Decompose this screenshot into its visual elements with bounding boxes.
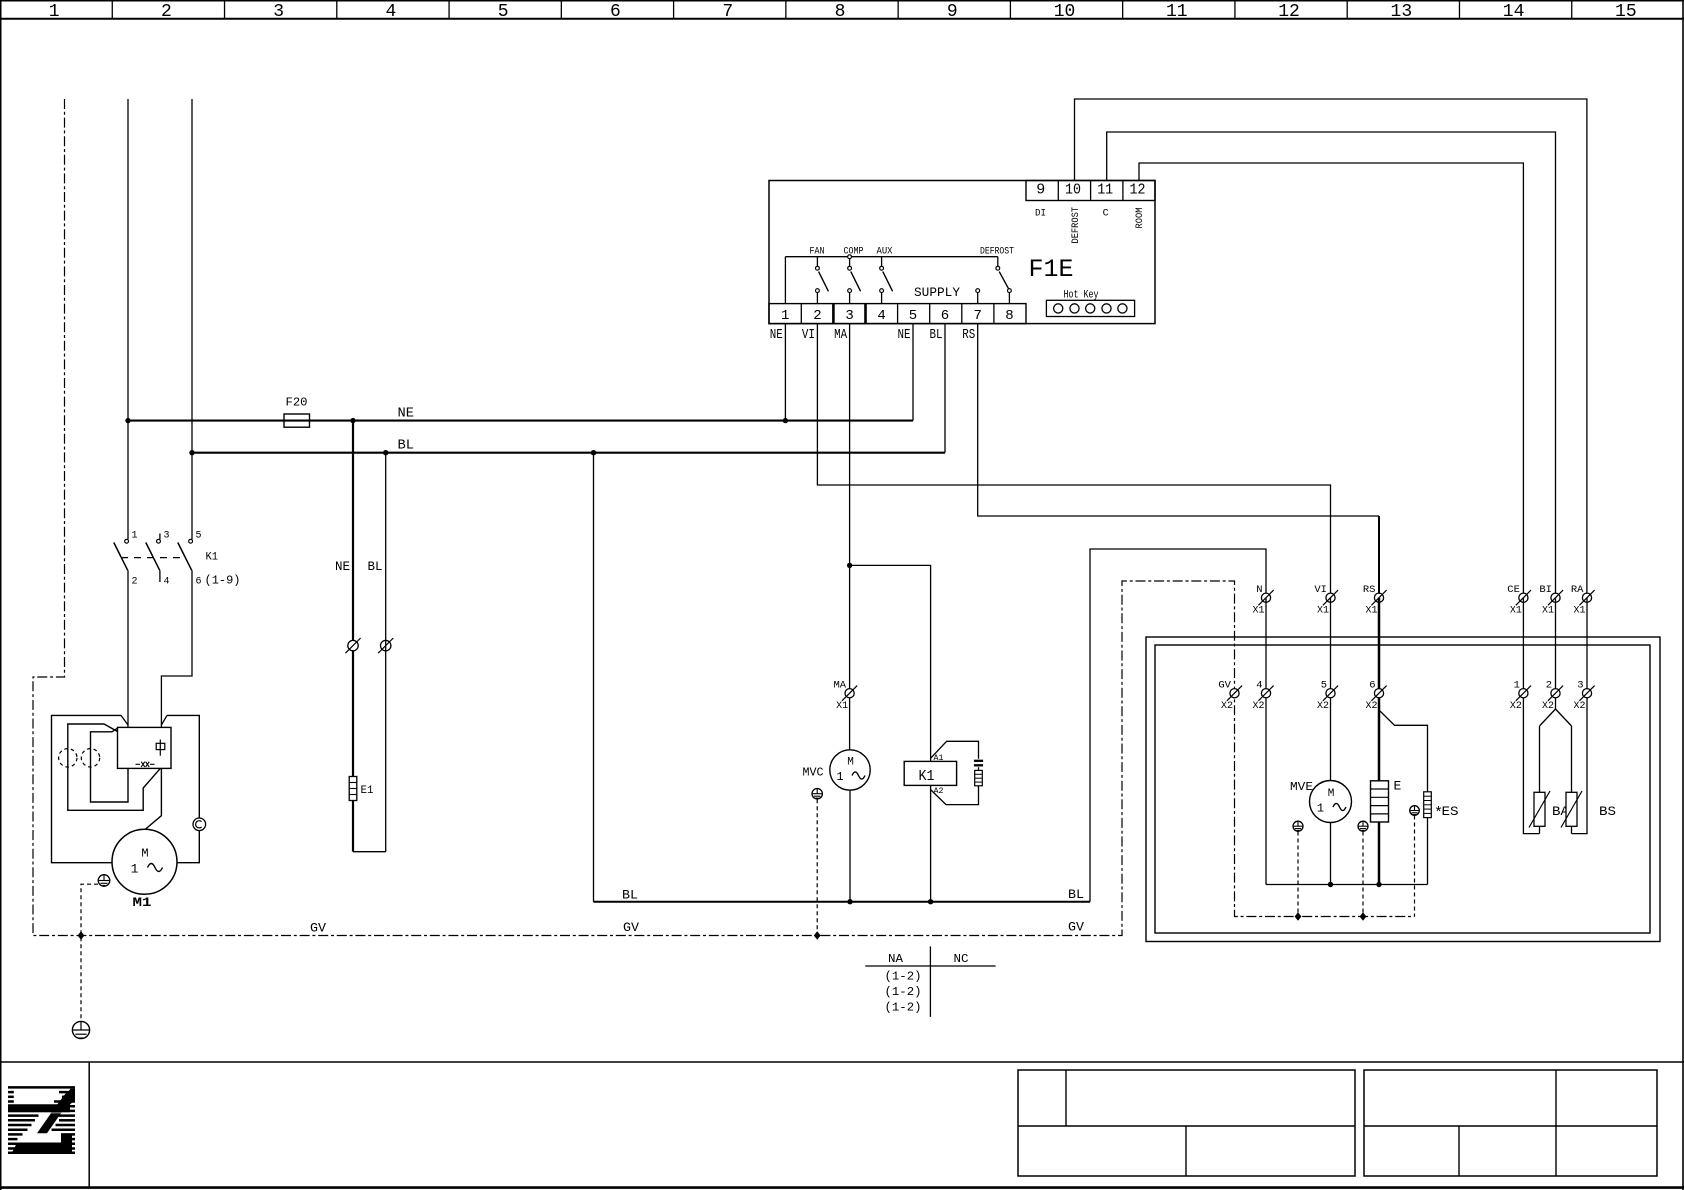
wire MVC to BL return (849, 790, 851, 902)
label F20 (286, 396, 308, 410)
svg-text:ROOM: ROOM (1135, 208, 1146, 229)
svg-text:12: 12 (1278, 2, 1300, 22)
pin label 10 (1065, 182, 1081, 199)
svg-text:COMP: COMP (844, 246, 864, 258)
compressor start relay box (118, 727, 172, 768)
label K1 (contacts) (206, 552, 219, 564)
svg-text:RA: RA (1571, 584, 1584, 596)
svg-text:E: E (1394, 779, 1402, 794)
wire BL bottom bus (594, 901, 1091, 903)
svg-text:10: 10 (1065, 182, 1081, 199)
sensor BA (thermistor) (1529, 791, 1550, 834)
junction NE/E1 branch (350, 418, 355, 423)
svg-text:1: 1 (49, 2, 60, 22)
wire terminal1 NE (784, 324, 786, 421)
svg-text:(1-2): (1-2) (885, 970, 922, 984)
svg-text:9: 9 (1036, 182, 1045, 199)
svg-text:12: 12 (1130, 182, 1146, 199)
svg-text:5: 5 (909, 308, 917, 324)
company logo (striped Z mark) (8, 1087, 75, 1152)
relay contact DEFROST (closed) (996, 257, 1011, 304)
legend table NA/NC (865, 946, 995, 1017)
svg-text:X1: X1 (1542, 606, 1554, 617)
svg-text:BI: BI (1539, 584, 1552, 596)
junction MA/K1 coil branch (847, 563, 852, 568)
wire terminal11 to BI probe (1107, 132, 1556, 598)
svg-text:K1: K1 (206, 552, 219, 564)
starter PTC symbol (136, 762, 155, 767)
wire BI into evaporator (1555, 598, 1557, 709)
wire N into evaporator (1265, 598, 1267, 885)
svg-text:14: 14 (1503, 2, 1525, 22)
wire MA branch to K1 coil (850, 565, 931, 761)
pin label 9 (1036, 182, 1045, 199)
net label NE (bus) (398, 406, 415, 422)
svg-text:2: 2 (1546, 679, 1552, 691)
junction BL/E1 branch (383, 450, 388, 455)
junction GV/M1 ground (78, 931, 85, 939)
wire MVE ground lead (dashed) (1297, 832, 1299, 917)
svg-text:M: M (141, 847, 148, 861)
wire M1 ground lead (dashed) (81, 884, 98, 1021)
svg-text:ES: ES (1442, 805, 1459, 819)
wire NE bus (128, 420, 913, 422)
label Hot Key (1064, 290, 1099, 302)
wire terminal2 VI to evaporator fan (817, 324, 1330, 598)
pin label 1 (781, 308, 789, 324)
net label BL (E1 branch) (368, 559, 383, 574)
connector 1/X2 (1510, 679, 1531, 712)
label ROOM (rotated) (1135, 208, 1146, 229)
F1E internal relay common bus (785, 257, 997, 304)
winding phantom circle B (81, 749, 99, 767)
svg-text:4: 4 (1256, 679, 1262, 691)
junction BL/K1 coil (928, 899, 933, 904)
label BS (1599, 804, 1616, 819)
pin label 5 (909, 308, 917, 324)
label *ES (1434, 805, 1459, 822)
svg-text:(1-2): (1-2) (885, 1000, 922, 1014)
net label GV (right) (1068, 920, 1084, 935)
label DEFROST (rotated) (1071, 207, 1082, 244)
contactor K1 pole 5-6 (178, 539, 193, 570)
wire ES ground lead (dashed) (1414, 816, 1416, 917)
svg-text:M: M (847, 757, 854, 769)
svg-text:X2: X2 (1574, 701, 1586, 712)
label BA (1552, 804, 1569, 819)
svg-text:GV: GV (310, 921, 326, 936)
wire start winding loop inner (91, 728, 129, 802)
svg-text:5: 5 (1321, 679, 1327, 691)
wire BL to evaporator N (1090, 549, 1266, 902)
svg-text:VI: VI (802, 328, 815, 343)
pin label 7 (973, 308, 981, 324)
wire RA into evaporator (1572, 598, 1588, 834)
ground symbol MVC (812, 789, 822, 799)
RC snubber across K1 coil (931, 741, 984, 804)
junction GV/MVC ground (814, 931, 821, 939)
svg-text:4: 4 (386, 2, 397, 22)
junction MVE/bus (1328, 882, 1333, 887)
pin label 12 (1130, 182, 1146, 199)
overload protector inside relay (156, 740, 165, 756)
junction NE/terminal1 (783, 418, 788, 423)
svg-text:NC: NC (954, 952, 969, 966)
svg-text:X2: X2 (1253, 701, 1265, 712)
wire K1 pole5 to compressor (161, 570, 192, 727)
svg-text:2: 2 (161, 2, 172, 22)
wire MVE return (1330, 823, 1332, 885)
label MVE (1290, 780, 1313, 794)
svg-text:5: 5 (498, 2, 509, 22)
connector GV/X2 (1218, 679, 1242, 712)
label C (terminal 11) (1103, 209, 1109, 220)
svg-text:VI: VI (1314, 584, 1327, 596)
motor M1 (compressor) (112, 829, 177, 894)
net label NE (E1 branch) (335, 559, 350, 574)
svg-text:3: 3 (273, 2, 284, 22)
svg-text:2: 2 (813, 308, 821, 324)
wire mains N at x=192 (191, 99, 193, 539)
wire start winding loop outer (68, 724, 161, 810)
contactor K1 pole 1-2 (114, 539, 129, 570)
fuse F20 (284, 414, 310, 427)
svg-text:4: 4 (877, 308, 885, 324)
safety thermostat ES (1424, 792, 1432, 818)
junction E/bus (1376, 882, 1381, 887)
relay contact AUX (880, 257, 893, 304)
svg-text:SUPPLY: SUPPLY (914, 286, 961, 300)
pin label 1 (132, 531, 138, 542)
wire evaporator bottom bus (1266, 884, 1428, 886)
junction GV/heater ground (1360, 912, 1367, 920)
label F1E (1029, 255, 1074, 284)
ground symbol ES (1410, 806, 1420, 816)
compressor enclosure M1 outline (52, 715, 200, 862)
net label NE (terminal) (898, 328, 911, 343)
svg-text:X2: X2 (1542, 701, 1554, 712)
svg-text:NE: NE (335, 559, 350, 574)
connector 4/X2 (1253, 679, 1274, 712)
svg-text:FAN: FAN (810, 246, 825, 258)
connector NE lead (345, 638, 360, 653)
svg-text:1: 1 (781, 308, 789, 324)
wire heater ground lead (dashed) (1362, 832, 1364, 917)
connector CE/X1 (1507, 584, 1531, 617)
svg-text:10: 10 (1054, 2, 1076, 22)
earth electrode symbol (72, 1021, 89, 1038)
net label BL (terminal) (930, 328, 943, 343)
wire K1 pole1 to compressor (127, 570, 129, 727)
svg-text:N: N (1256, 584, 1262, 596)
svg-text:11: 11 (1166, 2, 1188, 22)
connector BL lead (378, 638, 393, 653)
svg-text:5: 5 (196, 531, 202, 542)
ground symbol MVE (1293, 821, 1303, 831)
svg-text:F20: F20 (286, 396, 308, 410)
motor MVE (evaporator fan) (1310, 781, 1352, 823)
pin label 2 (813, 308, 821, 324)
svg-text:DI: DI (1035, 209, 1046, 220)
evaporator enclosure outer box (1146, 637, 1660, 942)
svg-text:X2: X2 (1510, 701, 1522, 712)
svg-text:M: M (1328, 788, 1335, 800)
label E1 (361, 785, 374, 797)
connector RS/X1 (1363, 584, 1387, 617)
wire RS to heater E (bold) (1378, 598, 1381, 781)
svg-text:3: 3 (1577, 679, 1583, 691)
net label BL (bottom right) (1068, 887, 1084, 902)
pin label 5 (196, 531, 202, 542)
label DEFROST (contact) (980, 246, 1014, 258)
svg-text:6: 6 (941, 308, 949, 324)
svg-text:AUX: AUX (877, 246, 894, 258)
pin label 4 (877, 308, 885, 324)
wire terminal5 NE (912, 324, 914, 421)
title strip separator (0, 1062, 1684, 1187)
wire BL vertical branch (593, 453, 595, 902)
svg-text:X2: X2 (1221, 701, 1233, 712)
wire E return (bold) (1378, 822, 1381, 885)
svg-text:7: 7 (722, 2, 733, 22)
label MVC (803, 766, 824, 780)
svg-text:X2: X2 (1317, 701, 1329, 712)
wire RS branch to ES (1379, 710, 1428, 792)
svg-text:MA: MA (834, 328, 848, 343)
connector BI/X1 (1539, 584, 1563, 617)
net label GV (left) (310, 921, 326, 936)
net label MA (terminal) (834, 328, 848, 343)
controller F1E outline (769, 181, 1155, 324)
junction BL/MVC (847, 899, 852, 904)
svg-text:M1: M1 (133, 895, 152, 910)
wire probe split (1540, 709, 1572, 792)
junction GV/MVE ground (1295, 912, 1302, 920)
connector 3/X2 (1574, 679, 1595, 712)
svg-text:GV: GV (1068, 920, 1084, 935)
title block A (1018, 1070, 1355, 1176)
label SUPPLY (914, 286, 961, 300)
junction BL/N feeder (189, 450, 194, 455)
wire E1 bottom return (353, 453, 386, 852)
svg-text:MVE: MVE (1290, 780, 1313, 794)
wire mains L at x=128 (127, 99, 129, 539)
connector 5/X2 (1317, 679, 1338, 712)
junction BL/down branch (591, 450, 596, 455)
svg-text:BS: BS (1599, 804, 1616, 819)
svg-text:1: 1 (1317, 802, 1324, 816)
svg-text:C: C (1103, 209, 1109, 220)
net label BL (bottom left) (622, 888, 638, 903)
wire NE to heater E1 (bold) (352, 421, 354, 777)
wire relay to motor (145, 768, 161, 829)
column ruler strip (0, 1, 1684, 22)
svg-text:X1: X1 (1574, 606, 1586, 617)
svg-text:NE: NE (898, 328, 911, 343)
svg-text:11: 11 (1097, 182, 1113, 199)
ground symbol heater area (1358, 821, 1368, 831)
svg-text:RS: RS (1363, 584, 1376, 596)
svg-text:X1: X1 (1366, 606, 1378, 617)
net label BL (bus) (398, 438, 415, 454)
wire CE into evaporator (1523, 598, 1539, 834)
run capacitor terminal C (193, 818, 206, 831)
sensor BS (thermistor) (1561, 791, 1582, 834)
label M1 (133, 895, 152, 910)
connector VI/X1 (1314, 584, 1338, 617)
relay contact COMP (848, 255, 861, 304)
svg-text:E1: E1 (361, 785, 374, 797)
svg-text:RS: RS (962, 328, 975, 343)
svg-text:NE: NE (398, 406, 415, 422)
wire VI to MVE (1330, 598, 1332, 781)
connector N/X1 (1253, 584, 1274, 617)
connector MA/X1 (834, 679, 858, 712)
junction NE/L1 (125, 418, 130, 423)
net label RS (terminal) (962, 328, 975, 343)
svg-text:(1-2): (1-2) (885, 985, 922, 999)
svg-text:6: 6 (196, 577, 202, 588)
svg-text:(1-9): (1-9) (205, 574, 241, 588)
svg-text:GV: GV (623, 920, 639, 935)
svg-text:15: 15 (1615, 2, 1637, 22)
winding phantom circle A (59, 749, 77, 767)
pin label 6 (941, 308, 949, 324)
F1E bottom terminal strip 1-8 (769, 304, 1026, 324)
svg-text:6: 6 (610, 2, 621, 22)
wire terminal10 to RA probe (1075, 99, 1587, 598)
pin label A2 (934, 786, 944, 796)
connector RA/X1 (1571, 584, 1595, 617)
svg-text:X1: X1 (1317, 606, 1329, 617)
pin label 3 (164, 531, 170, 542)
evaporator enclosure inner box (1155, 645, 1650, 933)
svg-text:3: 3 (164, 531, 170, 542)
F1E top terminal strip 9-12 (1026, 181, 1155, 201)
svg-text:NA: NA (888, 952, 904, 966)
svg-text:2: 2 (132, 577, 138, 588)
pin label 4 (164, 577, 170, 588)
svg-text:X1: X1 (836, 701, 848, 712)
svg-text:1: 1 (836, 770, 843, 784)
svg-text:4: 4 (164, 577, 170, 588)
title block B (1364, 1070, 1657, 1176)
svg-text:F1E: F1E (1029, 255, 1074, 284)
pin label 11 (1097, 182, 1113, 199)
svg-text:1: 1 (1514, 679, 1520, 691)
label (1-9) (205, 574, 241, 588)
svg-text:BL: BL (930, 328, 943, 343)
relay contact FAN (816, 257, 829, 304)
net label VI (terminal) (802, 328, 815, 343)
svg-text:CE: CE (1507, 584, 1520, 596)
label AUX (877, 246, 894, 258)
svg-text:DEFROST: DEFROST (980, 246, 1014, 258)
connector 6/X2 (1366, 679, 1387, 712)
wire MVC ground lead (dashed) (816, 799, 818, 935)
svg-text:MA: MA (834, 679, 847, 691)
svg-text:13: 13 (1391, 2, 1413, 22)
svg-text:3: 3 (845, 308, 853, 324)
heater E (1371, 781, 1389, 822)
wire terminal6 BL (944, 324, 946, 453)
svg-text:MVC: MVC (803, 766, 824, 780)
svg-text:X2: X2 (1366, 701, 1378, 712)
svg-text:NE: NE (770, 328, 783, 343)
pin label 3 (845, 308, 853, 324)
svg-text:9: 9 (947, 2, 958, 22)
svg-text:DEFROST: DEFROST (1071, 207, 1082, 244)
wire BL bus (192, 452, 945, 454)
wire terminal12 to CE probe (1139, 163, 1523, 598)
net label GV (middle) (623, 920, 639, 935)
heater E1 (349, 777, 357, 801)
svg-text:GV: GV (1218, 679, 1231, 691)
terminal 7 supply stub (976, 289, 980, 304)
pin label 6 (196, 577, 202, 588)
contactor K1 pole 3-4 (146, 534, 161, 583)
connector 2/X2 (1542, 679, 1563, 712)
wire ES return (1427, 818, 1429, 885)
svg-text:1: 1 (132, 531, 138, 542)
motor MVC (830, 750, 870, 790)
svg-text:7: 7 (973, 308, 981, 324)
svg-text:1: 1 (131, 862, 139, 877)
contactor coil K1 (904, 761, 956, 785)
label E (1394, 779, 1402, 794)
wire GV earth net (dash-dot) (33, 99, 1415, 936)
net label NE (terminal) (770, 328, 783, 343)
wire K1 coil A2 to BL return (930, 785, 932, 901)
label DI (1035, 209, 1046, 220)
pin label 8 (1005, 308, 1013, 324)
pin label 2 (132, 577, 138, 588)
svg-text:X1: X1 (1253, 606, 1265, 617)
Hot Key connector (1046, 300, 1134, 316)
svg-text:BL: BL (368, 559, 383, 574)
svg-text:BL: BL (1068, 887, 1084, 902)
svg-text:BL: BL (622, 888, 638, 903)
wire terminal7 RS to evaporator (978, 324, 1379, 598)
label COMP (844, 246, 864, 258)
label FAN (810, 246, 825, 258)
svg-text:BL: BL (398, 438, 415, 454)
pin label A1 (934, 753, 944, 763)
svg-text:8: 8 (835, 2, 846, 22)
svg-text:6: 6 (1369, 679, 1375, 691)
ground symbol M1 (98, 875, 110, 887)
svg-text:X1: X1 (1510, 606, 1522, 617)
K1 poles linkage (dashed) (121, 557, 186, 559)
wire terminal3 MA to MVC (849, 324, 851, 750)
svg-text:K1: K1 (919, 768, 935, 785)
svg-text:8: 8 (1005, 308, 1013, 324)
